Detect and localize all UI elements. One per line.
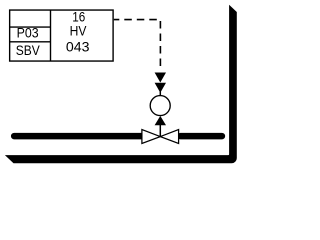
dashed signal line from tag box to actuator	[114, 20, 161, 71]
svg-text:HV: HV	[70, 23, 87, 39]
thick pipe L (right edge and bottom)	[5, 5, 237, 164]
stem from valve to actuator	[159, 125, 161, 138]
svg-text:043: 043	[66, 39, 90, 55]
valve body (bowtie)	[142, 130, 179, 144]
stem into actuator	[159, 92, 161, 96]
signal arrowhead lower	[155, 83, 166, 93]
actuator circle	[150, 96, 170, 116]
signal arrowhead upper	[155, 73, 166, 83]
instrument tag table HV-043	[10, 10, 113, 61]
pipe right segment	[181, 133, 222, 140]
svg-text:SBV: SBV	[16, 42, 41, 58]
pipe left segment	[14, 133, 145, 140]
svg-text:P03: P03	[17, 24, 39, 40]
stem arrowhead up	[155, 116, 166, 125]
